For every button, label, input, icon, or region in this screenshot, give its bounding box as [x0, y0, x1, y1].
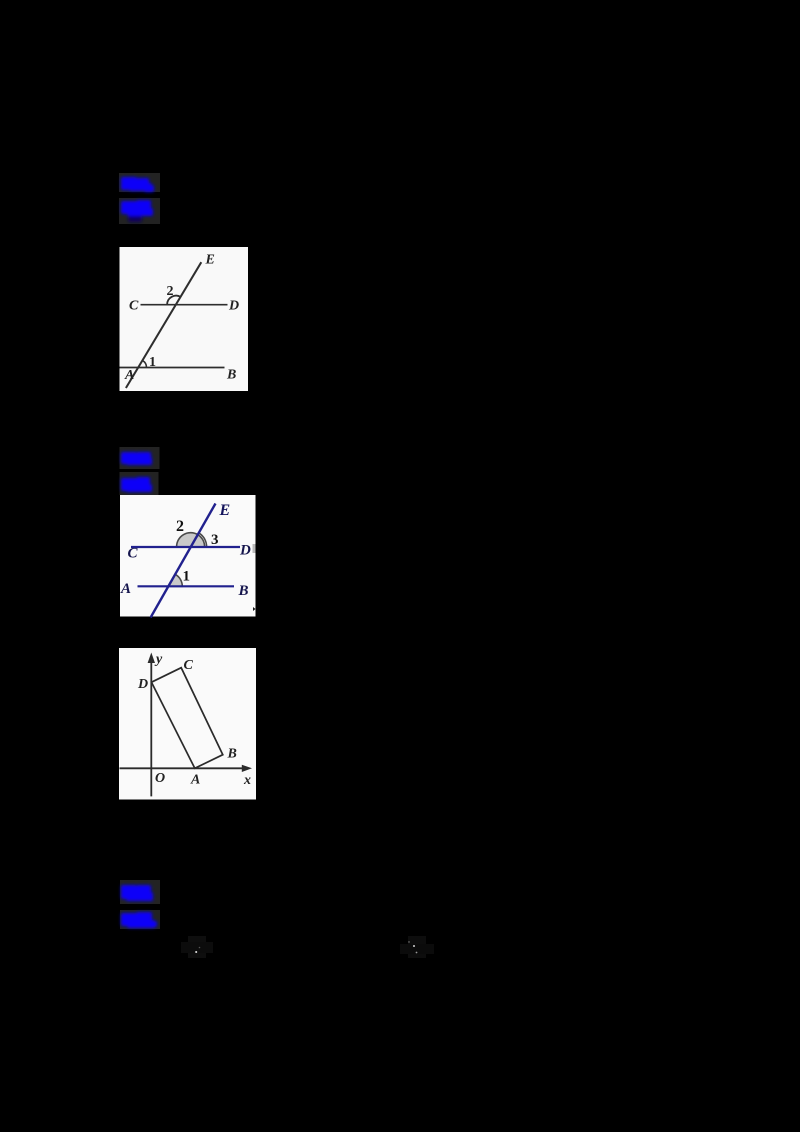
- svg-text:1: 1: [183, 569, 191, 585]
- line AB navy: [138, 585, 235, 587]
- blue text blob 6: [121, 912, 157, 928]
- figure 1 white panel: [120, 247, 249, 391]
- line AB: [120, 367, 225, 369]
- svg-text:A: A: [120, 581, 131, 597]
- angle 2 arc at CD intersection: [167, 296, 181, 305]
- svg-text:B: B: [227, 747, 237, 762]
- svg-text:D: D: [239, 543, 251, 559]
- line CD navy: [131, 546, 240, 548]
- figure 2 white panel: [120, 495, 256, 617]
- figure 3 white panel: [119, 648, 256, 800]
- svg-text:D: D: [228, 299, 239, 314]
- transversal line AE: [126, 262, 201, 388]
- faint formula mark right: [400, 936, 434, 958]
- svg-text:D: D: [137, 677, 148, 692]
- rectangle ABCD: [152, 668, 223, 769]
- angle 3 outer arc: [199, 533, 206, 547]
- svg-text:C: C: [184, 658, 194, 673]
- x-axis: [120, 767, 247, 769]
- svg-text:B: B: [226, 368, 236, 383]
- y-axis: [150, 658, 152, 796]
- gray highlight box 4: [120, 472, 159, 495]
- svg-text:y: y: [154, 652, 163, 667]
- svg-text:E: E: [219, 502, 231, 519]
- svg-text:E: E: [205, 253, 215, 268]
- svg-text:O: O: [155, 771, 165, 786]
- svg-text:2: 2: [176, 518, 184, 535]
- transversal navy: [151, 504, 216, 618]
- gray highlight box 6: [120, 910, 160, 929]
- gray highlight box 2: [119, 198, 160, 224]
- angle 1 arc at AB intersection: [143, 361, 147, 368]
- line CD: [141, 304, 228, 306]
- y-axis arrowhead: [148, 653, 155, 664]
- svg-text:2: 2: [167, 284, 174, 299]
- small mark bottom right fig2: [253, 607, 256, 611]
- angle 2 filled sector left: [177, 533, 198, 547]
- angle 1 filled sector at AB: [168, 574, 182, 586]
- svg-text:x: x: [243, 773, 251, 788]
- blue text blob 1: [121, 177, 154, 192]
- angle 3 filled sector right with double arc: [191, 535, 205, 547]
- svg-text:A: A: [124, 368, 134, 383]
- x-axis arrowhead: [242, 765, 252, 772]
- blue text blob 5: [121, 885, 153, 901]
- svg-text:1: 1: [149, 355, 156, 370]
- svg-text:3: 3: [211, 532, 219, 548]
- svg-text:C: C: [129, 299, 139, 314]
- gray highlight box 1: [119, 173, 160, 192]
- svg-text:A: A: [190, 773, 200, 788]
- gray tick right of D: [253, 544, 256, 553]
- gray highlight box 5: [120, 880, 160, 904]
- blue text blob 4: [121, 477, 152, 492]
- faint formula mark left: [181, 936, 213, 958]
- svg-text:B: B: [238, 583, 249, 599]
- gray highlight box 3: [120, 447, 160, 469]
- svg-text:C: C: [128, 546, 139, 562]
- blue text blob 3: [121, 452, 152, 465]
- blue text blob 2: [121, 200, 153, 222]
